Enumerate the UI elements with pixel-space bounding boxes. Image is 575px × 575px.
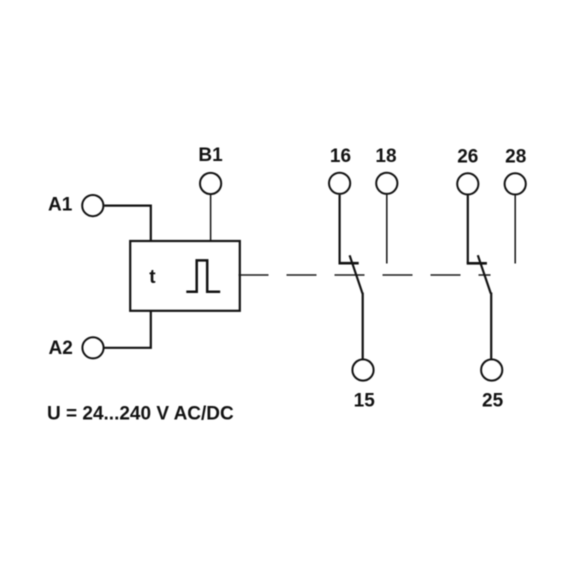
- terminal 15: [352, 359, 373, 380]
- svg-text:25: 25: [482, 391, 504, 412]
- svg-text:t: t: [149, 267, 156, 288]
- terminal 16: [329, 173, 350, 194]
- wire A1 to timer box: [104, 206, 151, 241]
- wire 28 down (open): [514, 195, 516, 263]
- terminal 18: [376, 173, 397, 194]
- pulse symbol: [186, 260, 220, 291]
- wire A2 to timer box: [104, 311, 150, 348]
- svg-text:15: 15: [354, 391, 376, 412]
- terminal 25: [481, 359, 502, 380]
- wire 26 down: [467, 195, 469, 263]
- svg-text:A1: A1: [48, 194, 73, 215]
- svg-text:28: 28: [505, 147, 526, 168]
- contact seat 26: [467, 262, 487, 265]
- svg-text:B1: B1: [198, 145, 223, 166]
- svg-text:18: 18: [375, 146, 396, 167]
- terminal 26: [457, 173, 478, 194]
- wire 18 down (open): [386, 195, 388, 264]
- contact lever 15-16: [350, 255, 363, 293]
- terminal 28: [505, 173, 526, 194]
- svg-text:26: 26: [457, 147, 478, 168]
- svg-text:16: 16: [330, 146, 351, 167]
- terminal B1: [200, 173, 221, 194]
- wire 16 down: [339, 195, 341, 264]
- dashed actuation line: [239, 274, 491, 276]
- contact lever 25-26: [478, 255, 491, 293]
- timer box U1: [130, 241, 240, 311]
- svg-text:A2: A2: [49, 338, 73, 359]
- terminal A1: [82, 195, 103, 216]
- svg-text:U = 24...240 V AC/DC: U = 24...240 V AC/DC: [47, 404, 234, 425]
- terminal A2: [82, 337, 103, 358]
- wire B1 to timer box: [210, 195, 212, 241]
- wire lever to 25: [490, 293, 492, 359]
- contact seat 16: [339, 262, 359, 265]
- wire lever to 15: [362, 293, 364, 359]
